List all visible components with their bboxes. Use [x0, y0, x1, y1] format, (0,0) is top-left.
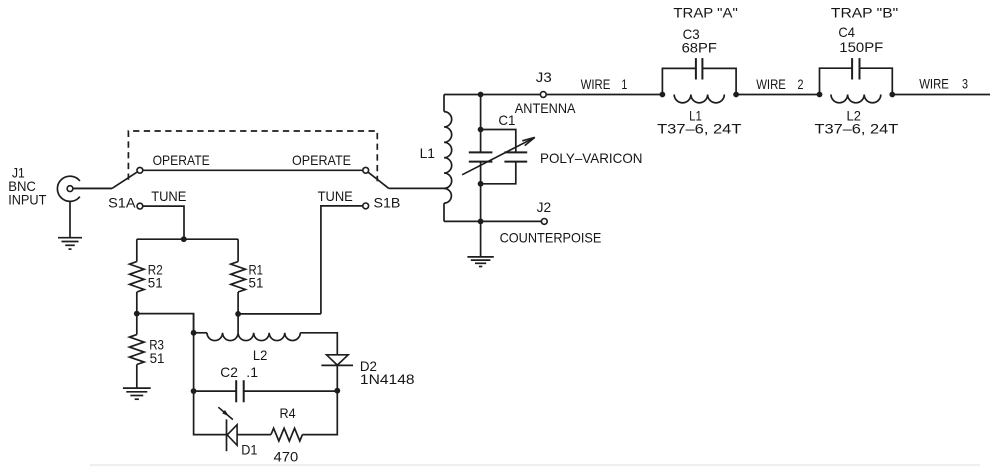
svg-text:3: 3: [962, 76, 968, 92]
svg-text:51: 51: [249, 275, 264, 291]
svg-text:C1: C1: [498, 112, 515, 128]
svg-text:C2: C2: [220, 364, 238, 380]
svg-text:S1B: S1B: [374, 195, 401, 211]
svg-text:L1: L1: [420, 145, 436, 161]
svg-text:TUNE: TUNE: [151, 188, 186, 204]
svg-text:150PF: 150PF: [839, 39, 883, 55]
svg-text:D1: D1: [241, 442, 257, 458]
svg-text:OPERATE: OPERATE: [292, 152, 351, 168]
svg-text:WIRE: WIRE: [581, 76, 611, 92]
svg-text:TRAP "B": TRAP "B": [831, 5, 898, 21]
svg-text:WIRE: WIRE: [919, 76, 949, 92]
svg-text:T37–6, 24T: T37–6, 24T: [815, 120, 899, 136]
svg-text:WIRE: WIRE: [756, 76, 786, 92]
svg-text:TRAP "A": TRAP "A": [673, 5, 737, 21]
svg-text:1: 1: [621, 76, 627, 92]
svg-text:2: 2: [798, 76, 804, 92]
svg-text:S1A: S1A: [108, 195, 136, 211]
svg-text:470: 470: [274, 448, 299, 464]
svg-text:J2: J2: [537, 199, 552, 215]
svg-text:51: 51: [150, 350, 165, 366]
svg-text:C4: C4: [838, 24, 855, 40]
svg-text:T37–6, 24T: T37–6, 24T: [657, 120, 742, 136]
svg-text:68PF: 68PF: [682, 39, 717, 55]
svg-text:TUNE: TUNE: [318, 188, 353, 204]
svg-text:INPUT: INPUT: [8, 192, 47, 208]
svg-text:ANTENNA: ANTENNA: [515, 100, 576, 116]
svg-text:COUNTERPOISE: COUNTERPOISE: [500, 229, 602, 245]
svg-text:.1: .1: [246, 364, 258, 380]
svg-text:J3: J3: [536, 69, 552, 85]
svg-text:R4: R4: [280, 405, 296, 421]
svg-text:OPERATE: OPERATE: [153, 152, 210, 168]
svg-text:51: 51: [148, 275, 163, 291]
svg-text:L2: L2: [253, 347, 268, 363]
svg-text:1N4148: 1N4148: [360, 371, 415, 387]
svg-text:POLY–VARICON: POLY–VARICON: [540, 150, 643, 166]
